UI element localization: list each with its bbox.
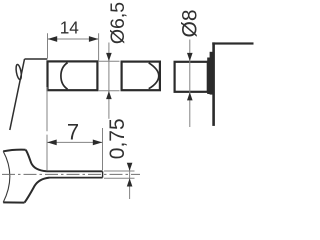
dimension 7: extension line right bbox=[102, 128, 104, 170]
dimension Ø6,5: extension line top bbox=[99, 60, 120, 62]
blade detail: break blob top edge bbox=[3, 150, 25, 152]
dimension Ø8: bottom arrowhead bbox=[187, 92, 193, 100]
handle knob ellipse bbox=[15, 64, 22, 80]
svg-text:0,75: 0,75 bbox=[106, 118, 129, 159]
dimension 14: dimension line bbox=[48, 38, 98, 40]
dimension 7: dimension line bbox=[47, 141, 102, 143]
dimension Ø6,5: bottom arrowhead bbox=[106, 91, 112, 99]
dimension 0,75: bottom arrowhead bbox=[127, 178, 133, 186]
dimension 7: extension line left lower segment bbox=[46, 135, 48, 171]
shaft segment 2 (bit, Ø6.5) bbox=[122, 62, 160, 91]
dimension 14: left arrowhead bbox=[48, 36, 58, 42]
dimension 14: extension line left bbox=[47, 33, 49, 58]
dimension 7: left arrowhead bbox=[47, 140, 57, 146]
blade detail: upper neck curve bbox=[26, 150, 47, 172]
svg-text:7: 7 bbox=[67, 119, 79, 144]
dimension Ø6,5: extension line bottom bbox=[99, 90, 120, 92]
dimension Ø8: dimension line bbox=[189, 40, 191, 128]
svg-text:Ø6,5: Ø6,5 bbox=[107, 2, 129, 44]
dimension Ø6,5: dimension line bbox=[108, 43, 110, 119]
shaft segment 3 (Ø8) bbox=[175, 62, 208, 92]
dimension 14: extension line right bbox=[98, 33, 100, 60]
body top edge bbox=[212, 42, 253, 44]
dimension 0,75: dimension line bbox=[129, 163, 131, 199]
blade detail: blade end cap bbox=[102, 171, 104, 177]
blade detail: lower neck curve bbox=[25, 178, 50, 203]
dimension Ø6,5: top arrowhead bbox=[106, 53, 112, 61]
blade detail: blade bottom edge bbox=[50, 177, 103, 179]
dimension 0,75: top arrowhead bbox=[127, 163, 133, 171]
blade detail: blade top edge bbox=[47, 170, 103, 172]
body left edge bbox=[212, 42, 215, 126]
shaft segment 1 (socket, Ø6.5) bbox=[48, 61, 98, 90]
dimension Ø8: top arrowhead bbox=[187, 53, 193, 61]
blade detail: wavy break line bbox=[3, 151, 10, 202]
svg-text:14: 14 bbox=[60, 18, 80, 38]
blade detail: break blob bottom edge bbox=[3, 201, 24, 203]
socket arc inside segment 1 bbox=[61, 63, 68, 90]
handle cone left slant bbox=[10, 59, 25, 130]
flange main ring bbox=[210, 52, 214, 95]
dimension 14: right arrowhead bbox=[89, 36, 99, 42]
handle cone top edge bbox=[25, 58, 48, 60]
dimension 7: extension line left upper segment (links views) bbox=[46, 87, 48, 131]
svg-text:Ø8: Ø8 bbox=[179, 9, 202, 37]
dimension 0,75: extension line top bbox=[104, 170, 135, 172]
blade detail: center line (dash-dot) bbox=[2, 173, 140, 175]
dimension 0,75: extension line bottom bbox=[104, 177, 135, 179]
bit arc inside segment 2 bbox=[149, 63, 159, 89]
dimension 7: right arrowhead bbox=[93, 140, 103, 146]
flange step ring bbox=[207, 58, 210, 95]
